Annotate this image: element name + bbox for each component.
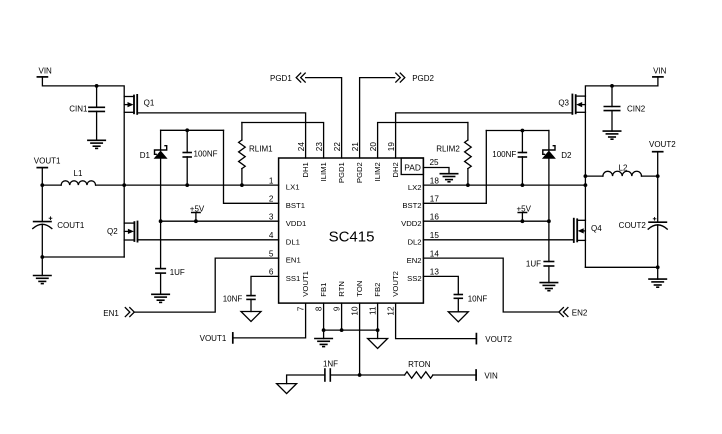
svg-text:LX1: LX1 (286, 183, 300, 192)
svg-text:5: 5 (269, 249, 274, 258)
svg-text:EN1: EN1 (103, 309, 119, 318)
svg-text:25: 25 (430, 158, 440, 167)
svg-text:ILIM2: ILIM2 (373, 162, 382, 181)
svg-text:VOUT1: VOUT1 (301, 271, 310, 297)
svg-text:11: 11 (368, 306, 377, 315)
svg-text:VOUT2: VOUT2 (485, 335, 512, 344)
svg-text:17: 17 (430, 195, 440, 204)
svg-text:8: 8 (314, 306, 323, 311)
svg-text:10: 10 (350, 306, 359, 316)
svg-text:100NF: 100NF (492, 150, 516, 159)
svg-text:14: 14 (430, 249, 440, 258)
svg-text:1UF: 1UF (526, 260, 541, 269)
svg-text:6: 6 (269, 268, 274, 277)
svg-text:+5V: +5V (516, 204, 531, 213)
svg-text:VOUT1: VOUT1 (200, 334, 227, 343)
svg-text:DH2: DH2 (391, 162, 400, 177)
svg-text:EN2: EN2 (572, 309, 588, 318)
svg-text:7: 7 (296, 306, 305, 311)
svg-text:1: 1 (269, 176, 274, 185)
svg-text:DL1: DL1 (286, 237, 300, 246)
svg-text:DH1: DH1 (301, 162, 310, 177)
svg-text:Q2: Q2 (107, 227, 118, 236)
svg-text:PGD2: PGD2 (355, 162, 364, 183)
svg-text:FB1: FB1 (319, 283, 328, 297)
svg-text:SC415: SC415 (329, 229, 375, 246)
svg-text:15: 15 (430, 231, 440, 240)
svg-text:19: 19 (387, 142, 396, 152)
svg-text:RLIM2: RLIM2 (436, 144, 460, 153)
svg-text:VOUT1: VOUT1 (34, 156, 61, 165)
svg-text:RTN: RTN (337, 281, 346, 297)
svg-text:10NF: 10NF (468, 295, 488, 304)
svg-text:PGD1: PGD1 (337, 162, 346, 183)
svg-text:16: 16 (430, 213, 440, 222)
svg-text:FB2: FB2 (373, 283, 382, 297)
svg-text:20: 20 (369, 142, 378, 152)
svg-text:PGD1: PGD1 (270, 74, 292, 83)
svg-text:23: 23 (315, 142, 324, 152)
svg-text:VOUT2: VOUT2 (391, 271, 400, 297)
svg-text:10NF: 10NF (223, 294, 243, 303)
svg-text:22: 22 (333, 142, 342, 152)
svg-text:L1: L1 (74, 169, 83, 178)
svg-text:BST2: BST2 (402, 201, 421, 210)
svg-text:100NF: 100NF (194, 149, 218, 158)
svg-text:VOUT2: VOUT2 (649, 140, 676, 149)
svg-text:Q1: Q1 (144, 99, 155, 108)
svg-text:Q3: Q3 (558, 99, 569, 108)
svg-text:COUT1: COUT1 (57, 221, 85, 230)
svg-text:SS1: SS1 (286, 274, 301, 283)
svg-text:D2: D2 (561, 151, 572, 160)
svg-text:PAD: PAD (404, 163, 421, 173)
svg-text:ILIM1: ILIM1 (319, 162, 328, 181)
svg-text:PGD2: PGD2 (412, 74, 434, 83)
svg-text:1NF: 1NF (323, 360, 338, 369)
svg-text:DL2: DL2 (407, 237, 421, 246)
svg-text:2: 2 (269, 195, 274, 204)
svg-text:VIN: VIN (39, 67, 53, 76)
svg-text:VIN: VIN (484, 371, 498, 380)
svg-text:12: 12 (386, 306, 395, 316)
svg-text:CIN1: CIN1 (69, 104, 88, 113)
svg-text:BST1: BST1 (286, 201, 305, 210)
svg-text:Q4: Q4 (591, 224, 602, 233)
svg-text:EN2: EN2 (407, 256, 422, 265)
svg-text:L2: L2 (619, 164, 628, 173)
svg-text:+5V: +5V (190, 204, 205, 213)
svg-text:VDD2: VDD2 (401, 219, 422, 228)
svg-text:RTON: RTON (408, 360, 431, 369)
svg-text:COUT2: COUT2 (619, 221, 647, 230)
svg-text:13: 13 (430, 268, 440, 277)
svg-text:9: 9 (332, 306, 341, 311)
svg-text:VIN: VIN (653, 67, 667, 76)
svg-text:3: 3 (269, 213, 274, 222)
svg-text:TON: TON (355, 281, 364, 297)
svg-text:CIN2: CIN2 (627, 104, 646, 113)
svg-text:4: 4 (269, 231, 274, 240)
svg-text:SS2: SS2 (407, 274, 422, 283)
svg-text:RLIM1: RLIM1 (249, 144, 273, 153)
svg-text:LX2: LX2 (408, 183, 422, 192)
svg-text:EN1: EN1 (286, 256, 301, 265)
svg-text:21: 21 (351, 142, 360, 152)
svg-text:1UF: 1UF (170, 268, 185, 277)
svg-text:18: 18 (430, 176, 440, 185)
svg-text:D1: D1 (140, 151, 151, 160)
svg-text:24: 24 (297, 142, 306, 152)
svg-text:VDD1: VDD1 (286, 219, 307, 228)
